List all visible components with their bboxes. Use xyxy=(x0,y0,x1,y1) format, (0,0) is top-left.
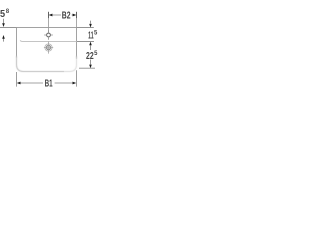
dimension 11.5/22.5 vertical line xyxy=(90,21,92,65)
B2 left arrow xyxy=(49,14,53,17)
inner front lower line xyxy=(20,40,76,41)
dimension B1 line xyxy=(20,82,72,84)
dimension B2 line xyxy=(51,14,73,16)
lower body lightening overlay xyxy=(13,58,80,74)
top edge right extension xyxy=(77,27,94,29)
svg-text:5: 5 xyxy=(94,50,98,57)
svg-text:8: 8 xyxy=(6,8,10,15)
inner rim line left xyxy=(0,34,44,36)
svg-text:B1: B1 xyxy=(45,79,53,90)
svg-text:5: 5 xyxy=(94,30,98,37)
svg-text:22: 22 xyxy=(86,51,94,62)
B1 right extension xyxy=(76,70,78,86)
basin outline xyxy=(17,28,77,72)
svg-text:5: 5 xyxy=(0,9,6,20)
right extension line at rim lower edge xyxy=(77,41,94,43)
B1 right arrow xyxy=(73,82,77,85)
11.5 top down arrow xyxy=(89,24,92,28)
5.8 up arrow xyxy=(2,35,5,39)
up arrow at rim lower edge xyxy=(89,42,92,46)
B2 right extension / tick xyxy=(76,12,78,28)
dimension 5.8 left vertical xyxy=(3,19,5,42)
B2 right arrow xyxy=(73,14,77,17)
tap hole symbol xyxy=(44,30,53,39)
extension line top-left (5.8 dim, upper) xyxy=(0,27,17,29)
basin bottom soft edge xyxy=(17,56,77,72)
drain symbol xyxy=(44,42,53,54)
B1 left arrow xyxy=(17,82,21,85)
right extension line at basin bottom xyxy=(79,67,95,69)
B1 left extension xyxy=(16,72,18,87)
B2 ticks xyxy=(49,12,77,18)
bottom down arrow xyxy=(89,65,92,69)
svg-text:B2: B2 xyxy=(62,11,71,22)
svg-text:11: 11 xyxy=(88,31,94,42)
centerline / B2 left extension xyxy=(48,12,50,33)
5.8 down arrow xyxy=(2,23,5,27)
